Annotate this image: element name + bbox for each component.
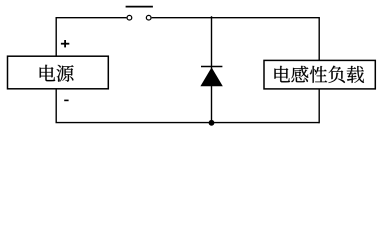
wire: left vertical from power-supply bottom down to bottom rail xyxy=(55,89,57,123)
label 电感性负载 (inductive load) xyxy=(274,66,364,83)
minus terminal label xyxy=(64,99,68,101)
circuit schematic: power supply + switch + flyback diode + inductive load xyxy=(0,0,378,133)
power supply box xyxy=(8,56,109,89)
switch S contact bar xyxy=(126,6,153,8)
wire: right vertical from load box bottom to bottom rail xyxy=(318,89,320,123)
switch S right terminal circle xyxy=(146,15,151,20)
wire: top rail left segment to switch xyxy=(56,17,127,19)
label 电源 (power supply) xyxy=(40,65,74,82)
diode D triangle (anode) xyxy=(200,67,222,86)
inductive load box xyxy=(264,60,375,89)
wire: bottom rail xyxy=(56,122,320,124)
plus terminal label xyxy=(61,40,69,47)
wire: left vertical from power-supply top up to top rail xyxy=(55,18,57,57)
wire: top rail from switch to right vertical xyxy=(152,17,320,19)
diode D cathode bar xyxy=(201,66,222,68)
wire: diode branch vertical xyxy=(211,16,213,122)
wire: right vertical from top rail down to load box xyxy=(318,17,320,60)
switch S left terminal circle xyxy=(127,15,132,20)
junction node dot xyxy=(209,120,215,126)
